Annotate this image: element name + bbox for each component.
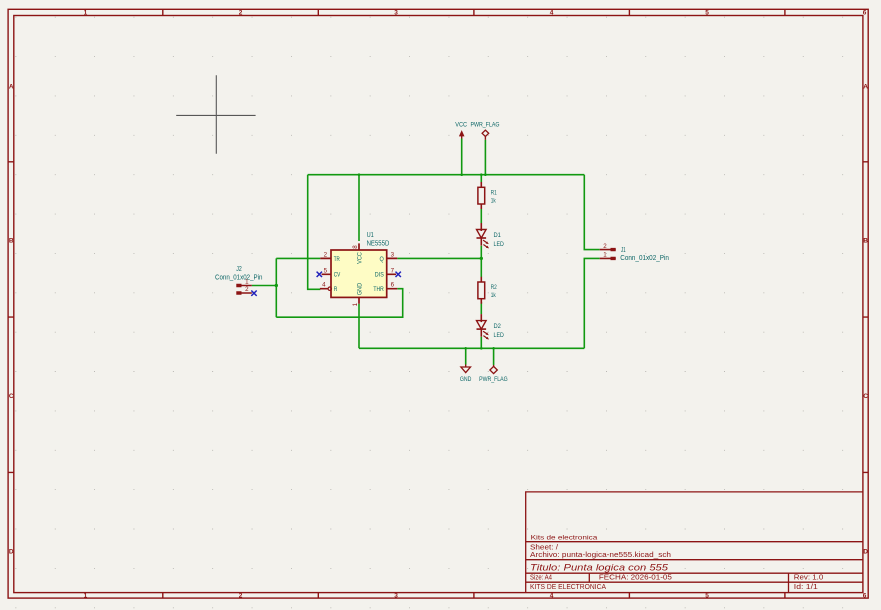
svg-text:THR: THR xyxy=(373,286,384,293)
svg-text:J1: J1 xyxy=(621,247,626,254)
svg-text:Q: Q xyxy=(380,256,384,263)
svg-text:1: 1 xyxy=(352,302,359,306)
svg-text:Conn_01x02_Pin: Conn_01x02_Pin xyxy=(620,255,669,262)
svg-text:Id: 1/1: Id: 1/1 xyxy=(794,584,818,591)
svg-text:6: 6 xyxy=(863,9,867,16)
svg-text:1: 1 xyxy=(603,251,607,258)
svg-text:2: 2 xyxy=(324,251,328,258)
svg-text:NE555D: NE555D xyxy=(367,240,390,247)
svg-text:R1: R1 xyxy=(491,189,497,196)
svg-text:5: 5 xyxy=(324,267,328,274)
svg-text:KITS DE ELECTRONICA: KITS DE ELECTRONICA xyxy=(530,582,606,591)
svg-text:DIS: DIS xyxy=(375,272,384,279)
svg-text:4: 4 xyxy=(322,282,326,289)
svg-text:J2: J2 xyxy=(236,266,242,273)
svg-text:7: 7 xyxy=(391,267,395,274)
svg-text:Conn_01x02_Pin: Conn_01x02_Pin xyxy=(215,274,263,281)
svg-text:U1: U1 xyxy=(367,232,374,239)
svg-text:1: 1 xyxy=(84,593,88,600)
svg-text:4: 4 xyxy=(550,9,554,16)
svg-text:Size: A4: Size: A4 xyxy=(530,575,552,582)
svg-text:R: R xyxy=(334,286,338,293)
svg-text:CV: CV xyxy=(334,272,341,279)
svg-text:PWR_FLAG: PWR_FLAG xyxy=(479,376,508,383)
svg-text:A: A xyxy=(863,84,868,91)
svg-text:6: 6 xyxy=(391,282,395,289)
svg-text:2: 2 xyxy=(245,286,249,293)
svg-text:Archivo: punta-logica-ne555.ki: Archivo: punta-logica-ne555.kicad_sch xyxy=(530,552,671,559)
svg-text:5: 5 xyxy=(705,9,709,16)
svg-text:2: 2 xyxy=(239,593,243,600)
svg-text:D1: D1 xyxy=(494,232,502,239)
svg-text:D: D xyxy=(9,549,14,556)
svg-text:GND: GND xyxy=(356,283,363,295)
svg-text:2: 2 xyxy=(603,243,607,250)
svg-text:3: 3 xyxy=(394,9,398,16)
svg-text:Rev: 1.0: Rev: 1.0 xyxy=(794,575,824,582)
svg-text:1k: 1k xyxy=(491,292,496,299)
svg-text:4: 4 xyxy=(550,593,554,600)
svg-text:GND: GND xyxy=(460,376,472,383)
svg-text:TR: TR xyxy=(334,256,340,263)
svg-text:1k: 1k xyxy=(491,197,496,204)
svg-text:A: A xyxy=(9,84,14,91)
svg-text:1: 1 xyxy=(84,9,88,16)
svg-text:Titulo: Punta logica con 555: Titulo: Punta logica con 555 xyxy=(530,562,669,573)
svg-text:5: 5 xyxy=(705,593,709,600)
svg-text:8: 8 xyxy=(352,245,359,249)
svg-text:PWR_FLAG: PWR_FLAG xyxy=(471,121,500,128)
svg-text:3: 3 xyxy=(391,251,395,258)
svg-text:C: C xyxy=(863,393,868,400)
svg-text:VCC: VCC xyxy=(356,252,363,264)
svg-text:Kits de electronica: Kits de electronica xyxy=(531,535,598,542)
svg-text:B: B xyxy=(863,238,868,245)
svg-text:2: 2 xyxy=(239,9,243,16)
svg-text:3: 3 xyxy=(394,593,398,600)
svg-text:Sheet: /: Sheet: / xyxy=(530,544,558,551)
svg-text:R2: R2 xyxy=(491,284,497,291)
svg-text:C: C xyxy=(9,393,14,400)
svg-text:B: B xyxy=(9,238,14,245)
svg-text:VCC: VCC xyxy=(455,121,467,128)
svg-text:LED: LED xyxy=(494,332,505,339)
svg-text:D: D xyxy=(863,549,868,556)
svg-text:6: 6 xyxy=(863,593,867,600)
svg-text:D2: D2 xyxy=(494,323,502,330)
svg-text:LED: LED xyxy=(494,241,505,248)
svg-text:FECHA: 2026-01-05: FECHA: 2026-01-05 xyxy=(599,575,672,582)
